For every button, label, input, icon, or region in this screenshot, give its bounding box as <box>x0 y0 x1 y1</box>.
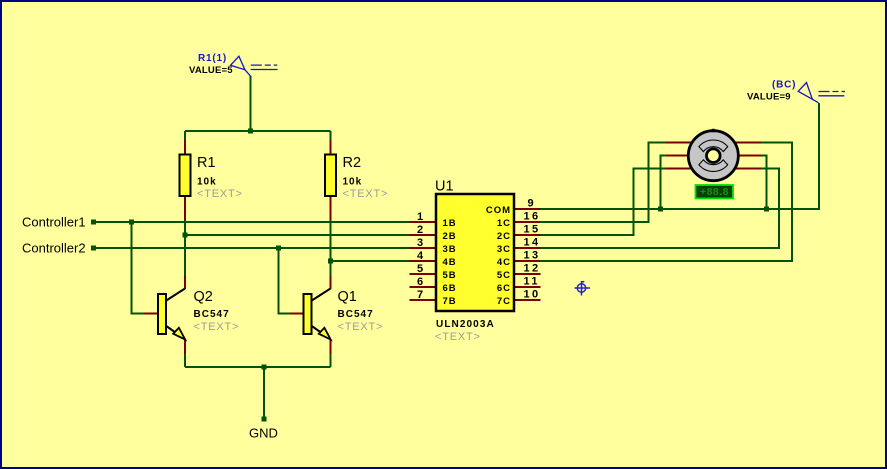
svg-text:15: 15 <box>524 224 541 236</box>
svg-text:5C: 5C <box>497 270 511 281</box>
svg-text:16: 16 <box>524 211 541 223</box>
svg-text:<TEXT>: <TEXT> <box>338 321 384 333</box>
origin marker crosshair <box>575 281 591 296</box>
junction: COM / motor right-middle <box>764 207 769 212</box>
pin 10 stub <box>514 299 541 301</box>
pin: R1 bottom (red) <box>184 196 186 221</box>
svg-text:R2: R2 <box>343 155 362 171</box>
svg-text:3C: 3C <box>497 244 511 255</box>
motor M1 <box>666 129 761 181</box>
pin 9 stub COM <box>514 208 541 210</box>
resistor R2 <box>325 155 388 201</box>
resistor R1 <box>180 155 243 201</box>
wire: probe V1 drop to top bus <box>250 76 252 131</box>
svg-text:6: 6 <box>417 276 426 288</box>
svg-text:GND: GND <box>249 426 278 441</box>
svg-text:7C: 7C <box>497 296 511 307</box>
display +88.8 <box>696 185 734 198</box>
pin: R2 bottom (red) <box>330 196 332 221</box>
U1 ULN2003A <box>410 179 541 344</box>
svg-text:2B: 2B <box>443 231 457 242</box>
pin 5 stub <box>410 273 437 275</box>
pin 2 stub <box>410 234 437 236</box>
motor body <box>688 131 738 181</box>
svg-text:1B: 1B <box>443 218 457 229</box>
voltage probe (BC) <box>747 80 845 103</box>
wire: R1 bottom down to line2 and Q2 collector <box>184 220 186 276</box>
svg-text:10k: 10k <box>197 177 217 188</box>
junction: Controller2/Q1 base branch <box>276 246 281 251</box>
svg-text:<TEXT>: <TEXT> <box>343 188 389 200</box>
wire: 2C net to motor bottom-left pin <box>540 169 667 236</box>
wire: top bus R1-R2 <box>185 130 331 132</box>
motor bottom pole arc <box>699 160 728 172</box>
wire: 3C net to motor bottom-right pin <box>540 169 779 249</box>
svg-text:4: 4 <box>417 250 426 262</box>
svg-text:1: 1 <box>417 211 426 223</box>
svg-text:12: 12 <box>524 263 541 275</box>
pin 16 stub <box>514 221 541 223</box>
svg-text:ULN2003A: ULN2003A <box>436 319 495 330</box>
junction: emitter bus / ground <box>262 365 267 370</box>
wire: Controller2 line to U1 pin3 <box>95 247 410 249</box>
svg-text:10: 10 <box>524 289 541 301</box>
svg-text:7: 7 <box>417 289 426 301</box>
pin 6 stub <box>410 286 437 288</box>
svg-text:Q2: Q2 <box>194 289 213 305</box>
motor top pole arc <box>699 140 728 152</box>
motor pins (red stubs) <box>666 142 692 144</box>
svg-text:14: 14 <box>524 237 541 249</box>
svg-text:4C: 4C <box>497 257 511 268</box>
svg-text:6C: 6C <box>497 283 511 294</box>
pin 14 stub <box>514 247 541 249</box>
svg-text:Controller2: Controller2 <box>22 241 86 256</box>
svg-text:3: 3 <box>417 237 426 249</box>
pin 13 stub <box>514 260 541 262</box>
junction: Controller1/Q2 base branch <box>129 220 134 225</box>
svg-text:(BC): (BC) <box>772 80 796 91</box>
svg-text:+88.8: +88.8 <box>700 186 729 198</box>
junction: R2/line4 <box>328 259 333 264</box>
terminal: Controller1 <box>22 215 96 230</box>
svg-text:13: 13 <box>524 250 541 262</box>
wire: R1 top stub green <box>184 131 186 141</box>
svg-text:<TEXT>: <TEXT> <box>435 331 481 343</box>
svg-text:BC547: BC547 <box>194 309 230 320</box>
transistor Q2 <box>158 289 239 340</box>
svg-text:BC547: BC547 <box>338 309 374 320</box>
pin: Q1 emitter stub (red) <box>330 340 332 355</box>
svg-text:7B: 7B <box>443 296 457 307</box>
svg-text:1C: 1C <box>497 218 511 229</box>
wire: 1C net to motor top-left pin <box>540 143 667 223</box>
wire: emitter bus <box>185 366 331 368</box>
svg-text:U1: U1 <box>435 179 454 195</box>
svg-text:9: 9 <box>528 198 537 210</box>
voltage probe R1(1) <box>189 53 278 76</box>
wire: COM branch to motor right middle pin <box>760 156 767 210</box>
pin: R1 top (red) <box>184 140 186 155</box>
pin 3 stub <box>410 247 437 249</box>
wire: R2 bottom down to line4 and Q1 collector <box>330 220 332 276</box>
pin 4 stub <box>410 260 437 262</box>
svg-text:2: 2 <box>417 224 426 236</box>
wire: Q1 base branch vertical <box>279 248 292 314</box>
junction: R1/line2 <box>183 233 188 238</box>
pin 1 stub <box>410 221 437 223</box>
wire: 4C net to motor top-right pin <box>540 143 792 262</box>
pin: Q2 emitter stub (red) <box>184 340 186 355</box>
svg-text:COM: COM <box>486 205 511 216</box>
svg-text:Q1: Q1 <box>338 289 357 305</box>
svg-text:Controller1: Controller1 <box>22 215 86 230</box>
wire: line2 R1 to U1 pin2 <box>185 234 410 236</box>
pin: Q1 base stub (red) <box>290 313 304 315</box>
svg-text:2C: 2C <box>497 231 511 242</box>
svg-text:R1(1): R1(1) <box>198 53 227 64</box>
motor mounting notch <box>712 129 715 132</box>
wire: COM net to probe <box>540 103 819 209</box>
wire: Q2 base branch vertical <box>132 222 146 314</box>
svg-text:3B: 3B <box>443 244 457 255</box>
ground <box>249 417 278 441</box>
pin: R2 top (red) <box>330 140 332 155</box>
pin 15 stub <box>514 234 541 236</box>
svg-text:5B: 5B <box>443 270 457 281</box>
junction: probe/top bus <box>248 129 253 134</box>
pin 11 stub <box>514 286 541 288</box>
svg-text:VALUE=5: VALUE=5 <box>189 65 233 76</box>
terminal: Controller2 <box>22 241 96 256</box>
svg-text:<TEXT>: <TEXT> <box>194 321 240 333</box>
wire: Q2 emitter down <box>184 354 186 367</box>
chip body <box>436 194 514 311</box>
wire: Controller1 line to U1 pin1 <box>95 221 410 223</box>
pin: Q2 base stub (red) <box>144 313 158 315</box>
pin: Q1 collector stub (red) <box>330 276 332 290</box>
svg-text:4B: 4B <box>443 257 457 268</box>
junction: COM / motor left-middle <box>658 207 663 212</box>
svg-text:VALUE=9: VALUE=9 <box>747 92 791 103</box>
svg-text:5: 5 <box>417 263 426 275</box>
transistor Q1 <box>304 289 384 340</box>
wire: Q1 emitter down <box>330 354 332 367</box>
pin: Q2 collector stub (red) <box>184 276 186 290</box>
svg-text:10k: 10k <box>343 177 363 188</box>
wire: COM branch to motor left middle pin <box>661 156 668 210</box>
pin 12 stub <box>514 273 541 275</box>
pin 7 stub <box>410 299 437 301</box>
svg-text:11: 11 <box>524 276 540 288</box>
wire: line4 R2 to U1 pin4 <box>331 260 411 262</box>
svg-text:<TEXT>: <TEXT> <box>197 188 243 200</box>
svg-text:6B: 6B <box>443 283 457 294</box>
wire: ground drop <box>263 367 265 418</box>
wire: R2 top stub green <box>330 131 332 141</box>
motor shaft <box>707 149 721 163</box>
svg-text:R1: R1 <box>197 155 216 171</box>
